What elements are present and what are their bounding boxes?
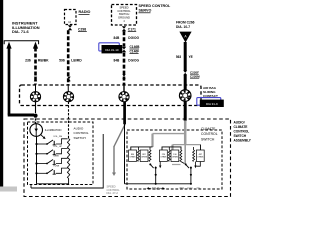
svg-text:CONTROL: CONTROL [117,9,131,13]
speed control switch ground box [112,5,137,26]
svg-text:SWITCH: SWITCH [201,138,215,142]
svg-text:84B: 84B [113,36,120,40]
svg-text:DIA. 71-6: DIA. 71-6 [12,29,29,34]
svg-text:SWITCH: SWITCH [234,134,247,138]
connector bowtie C171 [122,26,126,31]
svg-text:CLIMATE: CLIMATE [234,125,248,129]
audio climate control switch assembly outer box [24,119,231,197]
audio control switch label [74,126,89,139]
climate control switch label [201,127,218,142]
switch row VOL_DN [35,136,67,145]
wire outer return loop [31,134,103,188]
connector ring 1 [30,84,40,113]
ground bus rail [125,183,192,185]
svg-text:OHMS: OHMS [172,157,179,159]
svg-text:SPEED: SPEED [107,184,116,188]
band entry bowtie wire3 [122,74,125,79]
svg-text:OHMS: OHMS [160,157,167,159]
wire grey to speed control [112,124,125,176]
svg-text:C146B: C146B [130,45,141,49]
svg-text:SWITCH: SWITCH [119,12,130,16]
wire 563 YE [184,42,187,71]
air bag sliding contact ring [179,90,191,102]
climate control switch box [127,130,222,189]
svg-text:SPEED CONTROL: SPEED CONTROL [139,4,172,8]
svg-text:SWITCH: SWITCH [74,136,86,140]
speed control servo label [139,4,172,13]
svg-text:AUDIO/: AUDIO/ [234,120,245,124]
band entry bowtie wire1 [34,77,37,82]
svg-text:SPEED: SPEED [119,5,128,9]
svg-text:DG/OG: DG/OG [128,36,139,40]
labels C146B C146F [130,45,141,53]
svg-text:AUDIO: AUDIO [74,126,84,130]
svg-text:TUNE: TUNE [53,165,59,167]
svg-text:GROUND: GROUND [118,16,130,20]
svg-text:DIA. 27-2: DIA. 27-2 [107,191,119,195]
svg-text:SERVO: SERVO [139,9,152,13]
page background [0,0,252,200]
resistor R4 130 ohms [171,150,182,162]
label C171 [128,28,136,32]
wire 84B DG/OG upper [123,31,126,46]
wire DG/OG below ring3 [123,102,126,125]
svg-text:DIA. 10-7: DIA. 10-7 [176,25,190,29]
assembly label [234,120,252,142]
svg-text:ASSEMBLY: ASSEMBLY [234,138,252,142]
wire 596 LB/RD from radio [67,30,70,84]
node FROM C266 reference [176,21,195,29]
connector ring 2 [63,84,73,138]
wire label 236 RB/BK [25,58,49,62]
fan wiper selector [181,162,197,184]
wire arrow to instrument illumination (right, dashed 236 RB/BK) [33,42,38,85]
wire 84B DG/OG lower [123,53,126,85]
connector bowtie C298 [68,25,72,30]
wire grey branch left lower [173,145,201,150]
svg-text:C146F: C146F [130,50,140,54]
audio control switch box [28,122,94,185]
switch row SEEK [35,156,67,165]
svg-text:DG/OG: DG/OG [128,58,139,62]
svg-text:OHMS: OHMS [141,157,148,159]
band entry bowtie wire2 [67,77,70,82]
wire thick L from left arrow to junction [8,114,34,117]
wire rail over resistors 1-2 [131,147,153,150]
bracket over instrument illumination arrows [4,41,38,45]
wire to resistor 5 [200,145,202,150]
speed control destination label [107,184,121,195]
audio switch left bus [36,136,38,184]
wire into lamp [35,115,37,124]
wire label 596 LB/RD [59,58,82,62]
svg-text:CLIMATE: CLIMATE [201,127,216,131]
highlighted link box DIA 31-10 [99,43,123,54]
svg-text:VOL_UP: VOL_UP [53,146,62,148]
wire R5 bottom lead [197,162,201,167]
node INSTRUMENT ILLUMINATION label [12,21,40,35]
resistor R3 220 ohms [160,150,171,162]
svg-text:84B: 84B [113,58,120,62]
switch row VOL_UP [35,146,67,155]
svg-text:DIA 31-9: DIA 31-9 [206,102,218,106]
resistor R2 887 ohms [140,150,151,162]
left page border bar [0,0,3,187]
svg-text:VOL_DN: VOL_DN [53,136,62,138]
svg-text:DIA 31-10: DIA 31-10 [105,48,119,52]
svg-text:CONTROL: CONTROL [74,131,89,135]
fan annotation [180,186,201,190]
wire arrow to instrument illumination (left, solid) [6,42,11,115]
temp wiper selector [149,162,161,184]
svg-text:RADIO: RADIO [79,10,91,14]
labels C220F C220M [190,70,200,78]
grey page edge bottom-left [0,187,17,192]
wire DG/OG to temp rail [124,124,126,184]
connector bowtie C220 [183,71,187,76]
svg-text:C171: C171 [128,28,136,32]
node junction dot [33,114,37,118]
wire ladder bottom loop [37,179,69,184]
wire rail over resistors 3-4 [162,147,181,150]
wire sliding contact down [184,101,187,121]
connector ring 3 [119,84,129,102]
grey stub under R4 [172,164,181,166]
source triangle A [179,32,191,43]
svg-text:OHMS: OHMS [197,157,204,159]
svg-text:563: 563 [176,55,182,59]
air bag sliding contact label [203,86,218,98]
radio C298 connector box [65,10,77,25]
resistor R5 487 ohms [193,150,205,162]
svg-text:CONTROL: CONTROL [107,188,121,192]
illumination lamp [30,124,46,139]
radio label [68,10,90,24]
svg-text:CONTROL: CONTROL [234,129,250,133]
resistor R1 890 ohms [129,150,140,162]
label C298 [78,28,87,32]
svg-text:236: 236 [25,58,31,62]
svg-text:LB/RD: LB/RD [71,58,82,62]
highlighted link box DIA 31-9 [197,98,224,107]
svg-text:RB/BK: RB/BK [38,58,49,62]
svg-text:ILLUMINATION: ILLUMINATION [45,129,62,132]
svg-text:OHMS: OHMS [130,157,137,159]
svg-text:C220M: C220M [190,74,200,78]
svg-text:SEEK: SEEK [53,156,59,158]
svg-text:YE: YE [189,55,193,59]
svg-text:CONTROL: CONTROL [201,132,218,136]
connector bowtie C146 [122,47,126,52]
wire into sliding contact [184,75,187,90]
wire grey air bag feed [184,121,187,146]
steering column connector band [20,85,202,106]
svg-text:C298: C298 [78,28,86,32]
switch row TUNE [35,165,67,174]
resistor ladder zigzag [67,139,69,179]
temp annotation [146,187,165,191]
wire grey branch left upper [153,134,186,147]
svg-text:596: 596 [59,58,65,62]
